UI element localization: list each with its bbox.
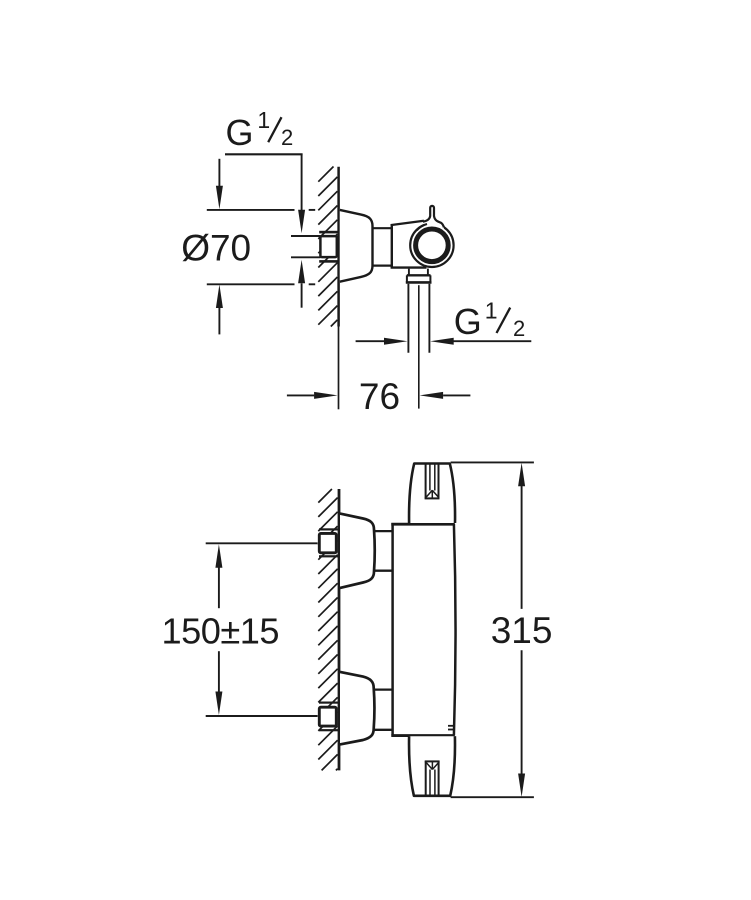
extension line escutcheon bottom (with dash) [207, 283, 315, 285]
150 dimension extension line bottom [206, 715, 318, 717]
bottom cap grip slot detail [425, 761, 440, 795]
dimension 150+-15 line with arrows [215, 544, 222, 715]
315 dimension extension line bottom [451, 796, 534, 798]
upper union connector (front view) [374, 531, 393, 571]
wall section (front view) hatching [318, 489, 337, 770]
handle inner ring (side view) [416, 229, 449, 262]
dimension G1/2 top bracket line [225, 153, 303, 155]
thermostat body (front view) [391, 523, 456, 736]
dimension 315 line with arrows [518, 463, 525, 797]
lower union square nut (front view) [319, 707, 336, 726]
upper S-union cone (front view) [340, 514, 375, 588]
wall connection flanges (top view) [319, 231, 338, 263]
315 dimension extension line top [451, 461, 534, 463]
svg-text:G: G [454, 301, 482, 342]
svg-text:1: 1 [485, 298, 498, 324]
diameter 70 lower arrow [216, 285, 223, 335]
svg-text:315: 315 [491, 610, 553, 651]
label G 1/2 (outlet) [454, 298, 526, 343]
outlet marking ticks (front view) [448, 725, 454, 730]
dimension G1/2 right drop line with arrow [298, 154, 305, 233]
svg-text:150±15: 150±15 [162, 610, 280, 651]
wall section (top view) hatching [318, 167, 337, 327]
outlet pipe centerline extension [418, 285, 420, 408]
dimension 76 line with arrows [287, 392, 471, 399]
wall connection square nut (top view) [320, 236, 336, 257]
shower outlet pipe (side view) [408, 284, 429, 353]
outlet collar lower band (side view) [406, 275, 432, 282]
wall face line (front view) [338, 489, 341, 770]
extension line escutcheon top (with dash) [207, 209, 315, 211]
top cap / temperature handle (front view) [409, 464, 455, 524]
G1/2 stub lower arrow [298, 260, 305, 308]
label G 1/2 (top) [226, 107, 294, 153]
valve neck (side view) [372, 228, 391, 265]
handle lever pin (side view) [417, 206, 444, 231]
lower S-union cone (front view) [340, 672, 374, 745]
upper union flanges (front view) [319, 528, 338, 557]
upper union square nut (front view) [319, 533, 336, 552]
dimension G1/2 left drop line with arrow [216, 159, 223, 209]
svg-text:G: G [226, 112, 254, 153]
escutcheon cone (side view) [340, 210, 373, 282]
valve body (side view) [391, 221, 427, 268]
svg-text:76: 76 [359, 376, 400, 417]
svg-text:2: 2 [513, 316, 525, 341]
handle outer circle (side view) [410, 224, 453, 267]
lower union connector (front view) [374, 690, 393, 730]
svg-text:2: 2 [281, 125, 293, 150]
supply pipe stub behind wall [291, 236, 321, 257]
svg-text:1: 1 [257, 107, 270, 133]
dimension G1/2 outlet line with arrows [356, 338, 532, 345]
top cap grip slot detail [425, 464, 440, 499]
150 dimension extension line top [206, 542, 318, 544]
outlet collar upper band (side view) [407, 269, 431, 276]
lower union flanges (front view) [319, 702, 338, 732]
wall face line (top view) [337, 167, 340, 409]
svg-text:Ø70: Ø70 [181, 228, 251, 269]
bottom cap (front view) [409, 736, 455, 796]
